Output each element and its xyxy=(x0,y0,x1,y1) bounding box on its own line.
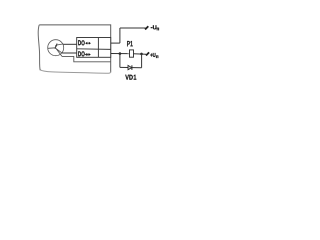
terminal pin -Up xyxy=(145,26,148,29)
junction dot right xyxy=(140,53,143,56)
terminal block DO xyxy=(77,38,111,58)
transistor VT (circle) xyxy=(48,40,64,56)
diode VD1 xyxy=(128,65,132,69)
transistor base bar xyxy=(55,44,57,49)
transistor base lead xyxy=(48,47,56,50)
svg-text:DO: DO xyxy=(78,40,85,47)
terminal block vertical divider xyxy=(97,38,99,58)
wire collector to terminal block xyxy=(63,43,76,45)
wire to -Up terminal xyxy=(120,27,146,29)
wire DO+ to fuse xyxy=(111,53,130,55)
fuse P1 xyxy=(130,53,134,55)
svg-text:п: п xyxy=(156,26,159,31)
diode branch left drop xyxy=(119,54,121,68)
svg-text:п: п xyxy=(156,54,159,59)
svg-text:DO: DO xyxy=(78,51,85,58)
transistor case line xyxy=(56,49,62,56)
wire DO- to riser xyxy=(111,42,120,44)
svg-text:P1: P1 xyxy=(127,39,133,48)
diode branch right rise xyxy=(141,54,143,68)
transistor arrow blob xyxy=(55,45,57,48)
terminal pin +Up xyxy=(146,52,149,55)
wire emitter to terminal block xyxy=(62,52,77,54)
transistor emitter line xyxy=(56,48,63,53)
junction dot left xyxy=(119,52,122,55)
svg-text:VD 1: VD 1 xyxy=(125,75,136,82)
diode branch bottom wire xyxy=(120,66,142,68)
transistor collector line xyxy=(56,44,63,45)
wire fuse to +Up terminal xyxy=(133,53,146,56)
wire riser up xyxy=(119,28,121,43)
wire circle to enclosure wall xyxy=(62,56,111,61)
sensor enclosure box xyxy=(38,24,111,73)
terminal block horizontal divider xyxy=(77,48,111,51)
